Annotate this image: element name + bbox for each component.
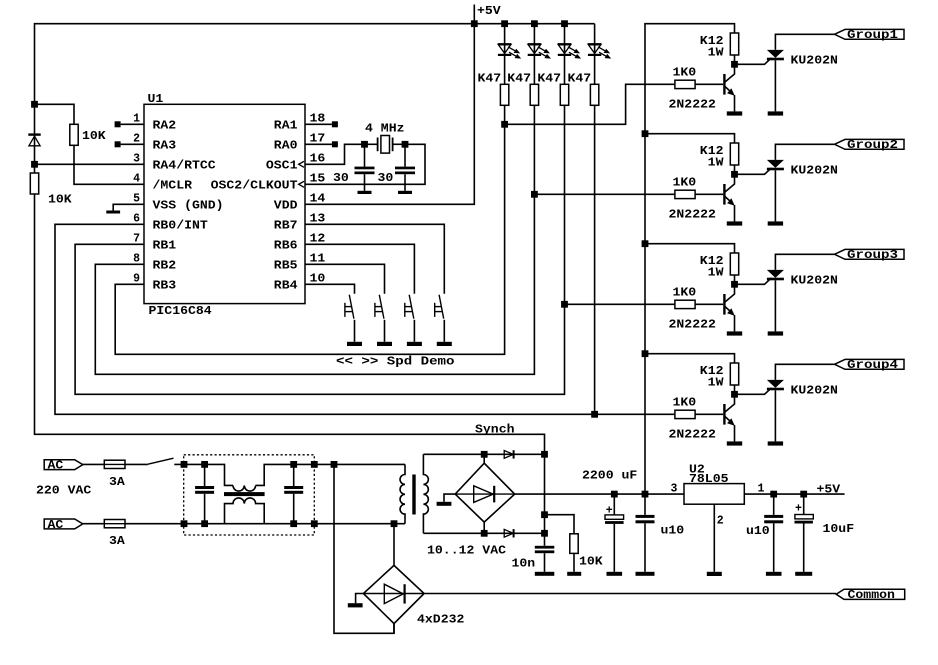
- svg-text:RA3: RA3: [153, 140, 177, 153]
- svg-text:Group1: Group1: [847, 29, 898, 42]
- transformer T1 secondary: [423, 454, 428, 533]
- wire sync vertical: [544, 454, 546, 546]
- svg-text:10K: 10K: [48, 193, 72, 206]
- wire pin 13 to button 4: [305, 224, 444, 293]
- svg-text:KU202N: KU202N: [791, 275, 838, 288]
- node K12 rail branch 4: [642, 350, 649, 357]
- transformer T1 primary: [400, 464, 405, 523]
- svg-text:PIC16C84: PIC16C84: [149, 305, 212, 318]
- svg-text:+5V: +5V: [817, 483, 841, 496]
- ground 30pF right: [404, 174, 406, 191]
- svg-text:RA1: RA1: [274, 120, 298, 133]
- wire column4 to base 4: [595, 413, 675, 415]
- wire RB2 pin 8 to column 2: [95, 194, 534, 374]
- svg-text:RB6: RB6: [274, 240, 298, 253]
- wire VDD pin 14 to +5V: [305, 24, 474, 205]
- svg-text:11: 11: [310, 252, 326, 265]
- ground cathode 1: [768, 111, 783, 115]
- svg-text:10: 10: [310, 272, 326, 285]
- ground cathode 4: [768, 441, 783, 445]
- wire +5V rail: [35, 24, 595, 105]
- wire K47 #4 down: [594, 105, 596, 414]
- fuse F1 3A: [104, 460, 125, 468]
- ground cathode 3: [768, 331, 783, 335]
- node RA4/sync junction: [31, 161, 38, 168]
- ground button 1: [347, 342, 362, 346]
- capacitor 2200uF: [613, 494, 615, 515]
- svg-text:2N2222: 2N2222: [669, 208, 716, 221]
- pin 17 RA0 n.c.: [305, 143, 332, 145]
- svg-text:6: 6: [133, 212, 140, 225]
- ground button 3: [407, 342, 422, 346]
- wire K12 to collector node 4: [734, 385, 736, 394]
- svg-text:RA4/RTCC: RA4/RTCC: [153, 160, 216, 173]
- switch SW3: [409, 295, 414, 319]
- svg-text:1K0: 1K0: [673, 67, 697, 80]
- LED D4: [588, 44, 601, 53]
- svg-text:78L05: 78L05: [689, 473, 729, 486]
- svg-text:3A: 3A: [109, 535, 125, 548]
- node sync junction bottom: [541, 530, 548, 537]
- wire bridge2 bottom stub: [483, 522, 485, 533]
- svg-text:Synch: Synch: [475, 424, 515, 437]
- node filter cap2 bottom: [290, 520, 297, 527]
- flag AC neutral: [44, 519, 83, 529]
- ground 2200uF: [613, 524, 615, 572]
- bridge 4xD232 diode: [363, 593, 424, 595]
- node secondary bottom junction: [481, 530, 488, 537]
- wire pin 10 to button 1: [305, 284, 355, 294]
- wire AC neutral to fuse: [83, 523, 105, 525]
- pin 2 RA3 n.c.: [121, 143, 144, 145]
- bridge2 diode: [455, 493, 515, 495]
- svg-text:KU202N: KU202N: [791, 165, 838, 178]
- node collector junction 1: [731, 61, 738, 68]
- node crystal left: [361, 141, 368, 148]
- svg-text:<< >> Spd Demo: << >> Spd Demo: [336, 355, 455, 368]
- ground bridge left: [356, 594, 364, 604]
- wire AC to bridge top: [393, 524, 395, 566]
- resistor K12 1W #4: [730, 363, 738, 385]
- svg-text:RA0: RA0: [274, 140, 298, 153]
- choke upper winding: [233, 485, 256, 491]
- svg-text:Group3: Group3: [847, 249, 898, 262]
- wire OSC1 to crystal: [305, 144, 365, 164]
- EMI filter dotted box: [184, 455, 315, 535]
- flag Common: [836, 589, 905, 599]
- wire K47 #1 down: [504, 105, 506, 124]
- svg-text:RB7: RB7: [274, 220, 298, 233]
- choke core: [224, 492, 265, 496]
- svg-text:RB2: RB2: [153, 260, 177, 273]
- ground 30pF left: [364, 174, 366, 191]
- capacitor 30pF right: [404, 144, 406, 166]
- pin 18 RA1 n.c.: [305, 123, 332, 125]
- svg-text:14: 14: [310, 192, 326, 205]
- crystal Y1 4 MHz: [377, 138, 379, 152]
- wire cathode 1: [774, 60, 776, 111]
- wire gate 1: [735, 58, 772, 65]
- svg-text:K47: K47: [478, 73, 502, 86]
- transformer core: [412, 475, 415, 515]
- wire K12 branch 4: [645, 354, 735, 363]
- flag Group4: [835, 359, 905, 369]
- wire fuse2 to filter: [125, 523, 184, 525]
- node LED3 column junction: [561, 301, 568, 308]
- wire pullup to /MCLR pin 4: [74, 145, 144, 184]
- node +5V rail junction x564: [561, 20, 568, 27]
- wire crystal to OSC2 pin 15: [305, 144, 425, 184]
- node u10 output junction: [770, 491, 777, 498]
- wire filter top rail right: [256, 464, 405, 485]
- wire button 3 to ground: [413, 320, 415, 342]
- svg-text:Common: Common: [848, 589, 895, 602]
- node AC to bridge junction: [391, 520, 398, 527]
- capacitor 10n: [535, 546, 555, 549]
- wire anode 2: [775, 144, 834, 160]
- ground emitter 1: [727, 111, 742, 115]
- resistor 10K sync load: [570, 534, 578, 554]
- svg-text:8: 8: [133, 252, 140, 265]
- svg-text:K47: K47: [507, 73, 531, 86]
- wire button 4 to ground: [443, 320, 445, 342]
- wire bridge2 top stub: [483, 454, 485, 463]
- capacitor u10 output: [773, 494, 775, 515]
- wire secondary top: [423, 453, 544, 455]
- node collector junction 2: [731, 171, 738, 178]
- svg-text:1K0: 1K0: [673, 287, 697, 300]
- resistor 1K0 #3: [675, 300, 695, 308]
- svg-text:7: 7: [133, 232, 140, 245]
- svg-text:VDD: VDD: [274, 200, 298, 213]
- bridge2 outline: [455, 463, 515, 522]
- resistor K12 1W #1: [730, 33, 738, 55]
- svg-text:VSS (GND): VSS (GND): [153, 200, 224, 213]
- node AC loop junction: [331, 461, 338, 468]
- flag Group3: [835, 249, 905, 259]
- node +5V rail junction x474: [471, 20, 478, 27]
- svg-text:13: 13: [310, 212, 326, 225]
- wire AC loop to bridge: [334, 464, 394, 633]
- ground 10uF: [803, 524, 805, 572]
- ground emitter 2: [727, 221, 742, 225]
- svg-text:4: 4: [133, 172, 140, 185]
- thyristor KU202N #1: [767, 50, 784, 58]
- svg-text:16: 16: [310, 152, 326, 165]
- wire pin 11 to button 2: [305, 264, 385, 294]
- svg-text:u10: u10: [661, 525, 685, 538]
- wire anode 4: [775, 364, 834, 380]
- node filter br: [311, 520, 318, 527]
- wire LED2 anode: [533, 24, 535, 85]
- svg-text:1K0: 1K0: [673, 177, 697, 190]
- ground button 4: [437, 342, 452, 346]
- LED D1: [498, 44, 511, 53]
- thyristor KU202N #2: [767, 160, 784, 168]
- svg-text:1W: 1W: [708, 266, 724, 279]
- svg-text:AC: AC: [48, 519, 64, 532]
- wire pin 12 to button 3: [305, 244, 414, 293]
- transistor Q3 2N2222: [723, 294, 725, 315]
- svg-text:2: 2: [717, 514, 724, 527]
- svg-text:KU202N: KU202N: [791, 385, 838, 398]
- flag AC line: [44, 460, 83, 470]
- svg-text:RB5: RB5: [274, 260, 298, 273]
- svg-text:30: 30: [378, 172, 394, 185]
- wire RB0 pin 6 to column 4: [55, 224, 595, 414]
- wire button 2 to ground: [384, 320, 386, 342]
- svg-text:OSC1: OSC1: [266, 160, 298, 173]
- ground 10n: [544, 553, 546, 572]
- svg-text:K47: K47: [537, 73, 561, 86]
- wire secondary bottom: [423, 532, 544, 534]
- wire cathode 3: [774, 280, 776, 331]
- svg-text:Group2: Group2: [847, 139, 898, 152]
- ground u10 output: [773, 523, 775, 572]
- resistor K47 #1: [500, 84, 508, 105]
- transistor Q2 2N2222: [723, 184, 725, 205]
- svg-text:10uF: 10uF: [823, 523, 855, 536]
- switch SW1: [349, 295, 354, 319]
- wire gate 4: [735, 388, 772, 395]
- wire fuse to switch: [125, 463, 148, 465]
- svg-text:30: 30: [333, 172, 349, 185]
- capacitor 10uF: [803, 494, 805, 514]
- power +5V label: [473, 5, 475, 24]
- svg-text:3: 3: [133, 152, 140, 165]
- diode clamp to +5V: [28, 133, 40, 135]
- node secondary top junction: [481, 451, 488, 458]
- wire button 1 to ground: [354, 320, 356, 342]
- node LED2 column junction: [531, 191, 538, 198]
- node +5V rail junction x534: [531, 20, 538, 27]
- resistor 1K0 #4: [675, 410, 695, 418]
- svg-text:2: 2: [133, 132, 140, 145]
- wire bridge bottom stub: [393, 624, 395, 634]
- svg-text:1W: 1W: [708, 376, 724, 389]
- ground button 2: [377, 342, 392, 346]
- wire anode 3: [775, 254, 834, 270]
- svg-text:18: 18: [310, 112, 326, 125]
- svg-text:2N2222: 2N2222: [669, 428, 716, 441]
- svg-text:15: 15: [310, 172, 326, 185]
- wire cathode 4: [774, 390, 776, 441]
- wire gate 3: [735, 278, 772, 285]
- node collector junction 4: [731, 391, 738, 398]
- svg-text:K47: K47: [568, 73, 592, 86]
- capacitor u10 input: [644, 494, 646, 515]
- wire column2 to base 2: [534, 193, 675, 195]
- wire K12 branch 2: [645, 134, 735, 143]
- wire filter top rail left: [174, 464, 233, 485]
- node filter tr: [311, 461, 318, 468]
- svg-text:Group4: Group4: [847, 359, 898, 372]
- choke lower winding: [225, 498, 265, 524]
- svg-text:U1: U1: [148, 93, 164, 106]
- svg-text:AC: AC: [48, 460, 64, 473]
- ground u10 input: [644, 523, 646, 572]
- fuse F2 3A: [104, 520, 125, 528]
- resistor 10K sync series: [30, 173, 38, 194]
- wire K12 to collector node 1: [734, 55, 736, 64]
- capacitor filter C2: [293, 464, 295, 486]
- wire RB1 pin 7 to column 3: [75, 244, 564, 394]
- wire Common: [424, 593, 836, 595]
- flag Group2: [835, 139, 905, 149]
- wire AC line to fuse: [83, 463, 105, 465]
- node filter tl: [181, 461, 188, 468]
- resistor K47 #2: [530, 84, 538, 105]
- ground bridge2: [444, 494, 455, 502]
- node K12 rail junction: [642, 491, 649, 498]
- thyristor KU202N #4: [767, 380, 784, 388]
- IC U1 PIC16C84: [144, 93, 305, 318]
- svg-text:3: 3: [671, 482, 678, 495]
- svg-text:u10: u10: [746, 525, 770, 538]
- wire column1 jog to base 1: [505, 84, 675, 124]
- svg-text:1: 1: [133, 112, 140, 125]
- wire K12 rail top corner: [645, 24, 735, 134]
- node filter cap2 top: [290, 461, 297, 468]
- node +5V rail junction x504: [501, 20, 508, 27]
- wire crystal left lead: [365, 143, 378, 145]
- svg-text:10K: 10K: [82, 130, 106, 143]
- ground 10K sync load: [573, 553, 575, 571]
- wire tap to 10K: [545, 515, 575, 534]
- svg-text:1K0: 1K0: [673, 397, 697, 410]
- wire gate 2: [735, 168, 772, 175]
- bridge 4xD232 outline: [363, 565, 424, 623]
- svg-text:RB3: RB3: [153, 280, 177, 293]
- wire K12 branch 3: [645, 244, 735, 253]
- ground 78L05: [707, 572, 722, 576]
- svg-text:220 VAC: 220 VAC: [36, 484, 91, 497]
- node K12 rail branch 3: [642, 240, 649, 247]
- node filter cap1 bottom: [201, 520, 208, 527]
- node filter cap1 top: [201, 461, 208, 468]
- svg-text:3A: 3A: [109, 476, 125, 489]
- svg-text:12: 12: [310, 232, 326, 245]
- switch SW2: [379, 295, 384, 319]
- svg-text:4xD232: 4xD232: [417, 614, 464, 627]
- capacitor filter C1: [204, 464, 206, 486]
- svg-text:+: +: [795, 503, 802, 516]
- transistor Q1 2N2222: [723, 74, 725, 95]
- svg-text:2N2222: 2N2222: [669, 98, 716, 111]
- wire base 1: [695, 83, 723, 85]
- wire DC rail: [515, 493, 684, 495]
- wire crystal right lead: [393, 143, 405, 145]
- svg-text:/MCLR: /MCLR: [153, 180, 193, 193]
- switch SW4: [439, 295, 444, 319]
- node filter bl: [181, 520, 188, 527]
- svg-text:RA2: RA2: [153, 120, 177, 133]
- svg-text:+5V: +5V: [477, 5, 501, 18]
- LED D2: [528, 44, 541, 53]
- svg-text:RB1: RB1: [153, 240, 177, 253]
- wire RB3 pin 9 to column 1: [115, 124, 504, 354]
- wire LED4 anode: [594, 24, 596, 85]
- flag Group1: [835, 29, 905, 39]
- regulator U2 78L05: [684, 484, 744, 505]
- node collector junction 3: [731, 281, 738, 288]
- svg-text:4 MHz: 4 MHz: [365, 123, 405, 136]
- svg-text:10K: 10K: [579, 556, 603, 569]
- wire filter bottom rail: [184, 523, 405, 525]
- wire sync resistor to Synch line: [35, 194, 545, 454]
- svg-text:2N2222: 2N2222: [669, 318, 716, 331]
- svg-text:10n: 10n: [512, 557, 536, 570]
- resistor 1K0 #1: [675, 80, 695, 88]
- wire RA4/RTCC pin 3: [35, 163, 145, 165]
- wire K47 #3 down: [564, 105, 566, 304]
- svg-text:1W: 1W: [708, 156, 724, 169]
- wire base 4: [695, 413, 723, 415]
- wire base 2: [695, 193, 723, 195]
- capacitor 30pF left: [364, 144, 366, 166]
- node crystal right: [402, 141, 409, 148]
- diode sync top: [504, 451, 513, 459]
- resistor 1K0 #2: [675, 190, 695, 198]
- wire +5V output rail: [744, 493, 844, 495]
- wire base 3: [695, 303, 723, 305]
- resistor K47 #3: [560, 84, 568, 105]
- resistor K12 1W #3: [730, 253, 738, 275]
- LED D3: [558, 44, 571, 53]
- node LED4 column junction: [591, 411, 598, 418]
- wire K47 #2 down: [533, 105, 535, 194]
- wire cathode 2: [774, 170, 776, 221]
- svg-text:RB4: RB4: [274, 280, 298, 293]
- node sync junction top: [541, 451, 548, 458]
- ground emitter 4: [727, 441, 742, 445]
- resistor K12 1W #2: [730, 143, 738, 165]
- transistor Q4 2N2222: [723, 404, 725, 425]
- svg-text:9: 9: [133, 272, 140, 285]
- wire +5V to clamp diode: [34, 104, 36, 173]
- wire K12 rail vertical: [644, 134, 646, 495]
- wire pullup feed: [35, 104, 75, 124]
- node K12 rail branch 2: [642, 130, 649, 137]
- svg-text:5: 5: [133, 192, 140, 205]
- diode sync bottom: [504, 529, 513, 537]
- svg-text:1W: 1W: [708, 46, 724, 59]
- node 10uF junction: [800, 491, 807, 498]
- node +5V/pullup junction: [31, 101, 38, 108]
- resistor 10K MCLR pullup: [70, 124, 78, 145]
- svg-text:10..12 VAC: 10..12 VAC: [427, 545, 506, 558]
- wire LED1 anode: [504, 24, 506, 85]
- wire K12 to collector node 2: [734, 165, 736, 174]
- wire LED3 anode: [564, 24, 566, 85]
- svg-text:RB0/INT: RB0/INT: [153, 220, 208, 233]
- ground emitter 3: [727, 331, 742, 335]
- node LED1 column junction: [501, 121, 508, 128]
- ground cathode 2: [768, 221, 783, 225]
- switch power lever: [148, 458, 174, 464]
- ground VSS pin 5: [113, 204, 144, 210]
- wire K12 to collector node 3: [734, 275, 736, 284]
- thyristor KU202N #3: [767, 270, 784, 278]
- svg-text:17: 17: [310, 132, 326, 145]
- wire anode 1: [775, 34, 834, 50]
- node 2200uF junction: [611, 491, 618, 498]
- resistor K47 #4: [590, 84, 598, 105]
- svg-text:2200 uF: 2200 uF: [582, 469, 637, 482]
- node sync tap: [541, 511, 548, 518]
- wire 78L05 pin2: [713, 504, 715, 572]
- svg-text:OSC2/CLKOUT: OSC2/CLKOUT: [211, 180, 298, 193]
